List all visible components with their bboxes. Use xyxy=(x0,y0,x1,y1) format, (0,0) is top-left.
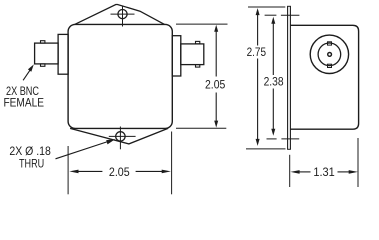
extension line top right of body (2.05 vertical) xyxy=(176,23,228,25)
vertical dimension line 2.05 lower segment xyxy=(215,93,217,123)
svg-text:2.38: 2.38 xyxy=(264,75,284,89)
strip bottom cap xyxy=(287,148,291,150)
arrowhead up (2.38) xyxy=(271,17,275,24)
BNC front: outer circle xyxy=(310,35,348,73)
vertical dimension line 2.05 upper segment xyxy=(215,30,217,77)
extension/centerline bottom (2.38) left part xyxy=(267,138,277,140)
bottom mounting hole xyxy=(116,132,125,141)
left BNC bayonet lug top xyxy=(41,41,45,43)
top hole centerline horizontal xyxy=(111,13,135,15)
dimension line 2.38 upper segment xyxy=(272,22,274,75)
left BNC mounting nut xyxy=(58,34,68,74)
right BNC bayonet lug bottom xyxy=(196,65,200,68)
leader arrow to bottom hole (THRU) xyxy=(56,142,109,159)
svg-text:THRU: THRU xyxy=(19,157,44,171)
arrowhead up (2.05 vertical) xyxy=(214,25,218,32)
leader arrow to left BNC xyxy=(23,69,30,80)
extension line right (2.05 horizontal) xyxy=(171,132,173,195)
svg-text:2.05: 2.05 xyxy=(205,77,226,91)
svg-text:1.31: 1.31 xyxy=(313,165,335,179)
BNC front: lug bottom xyxy=(328,64,332,67)
right BNC bayonet lug top xyxy=(196,41,200,44)
bottom mounting flange (triangle) xyxy=(70,128,168,144)
arrowhead left (1.31) xyxy=(290,170,299,174)
top mounting hole xyxy=(118,10,127,19)
dimension line 1.31 right segment xyxy=(338,171,352,173)
body (front view, rounded square) xyxy=(68,24,172,128)
BNC front: center pin xyxy=(328,53,332,57)
extension line bottom right of body (2.05 vertical) xyxy=(176,127,226,129)
hole centerline bottom crossing flange xyxy=(281,138,299,140)
bottom hole centerline vertical xyxy=(119,127,121,150)
arrowhead down (2.38) xyxy=(271,129,275,136)
left BNC bayonet lug bottom xyxy=(41,64,45,66)
right BNC mounting nut xyxy=(172,36,181,76)
BNC front: middle circle xyxy=(318,43,341,66)
dimension line 1.31 left segment xyxy=(297,171,311,173)
side view: mounting flange strip left line xyxy=(287,6,289,149)
arrowhead up (2.75) xyxy=(256,8,260,15)
extension line top (2.75) xyxy=(248,6,285,8)
right BNC connector barrel xyxy=(181,44,204,65)
extension line left (1.31) xyxy=(289,155,291,187)
horizontal dimension line 2.05 left segment xyxy=(76,170,102,172)
top hole centerline vertical xyxy=(122,6,124,27)
arrowhead down (2.05 vertical) xyxy=(214,121,218,128)
arrowhead right (1.31) xyxy=(349,170,358,174)
arrowhead of BNC leader xyxy=(28,64,34,71)
dimension line 2.75 upper segment xyxy=(257,14,259,46)
strip top cap xyxy=(287,5,291,7)
extension line right (1.31) xyxy=(357,138,359,187)
hole centerline top crossing flange xyxy=(281,14,300,16)
svg-text:2.05: 2.05 xyxy=(109,165,130,179)
bottom hole centerline horizontal xyxy=(109,135,136,137)
left BNC connector barrel xyxy=(35,43,59,64)
extension line left (2.05 horizontal) xyxy=(67,146,69,194)
arrowhead right (2.05 horizontal) xyxy=(162,170,171,174)
extension/centerline top (2.38) left part xyxy=(265,14,277,16)
side view: body plate with rounded right corners xyxy=(290,25,358,129)
extension line bottom (2.75) xyxy=(246,148,286,150)
arrowhead left (2.05 horizontal) xyxy=(69,170,78,174)
arrowhead down (2.75) xyxy=(256,139,260,146)
BNC front: lug top xyxy=(328,42,332,45)
dimension line 2.75 lower segment xyxy=(257,59,259,142)
dimension line 2.38 lower segment xyxy=(272,89,274,131)
horizontal dimension line 2.05 right segment xyxy=(136,170,163,172)
top mounting flange (triangle) xyxy=(75,5,165,25)
arrowhead of THRU leader xyxy=(106,139,115,144)
svg-text:2.75: 2.75 xyxy=(247,45,267,59)
side view: mounting flange strip right line xyxy=(289,6,291,149)
svg-text:FEMALE: FEMALE xyxy=(4,96,45,110)
